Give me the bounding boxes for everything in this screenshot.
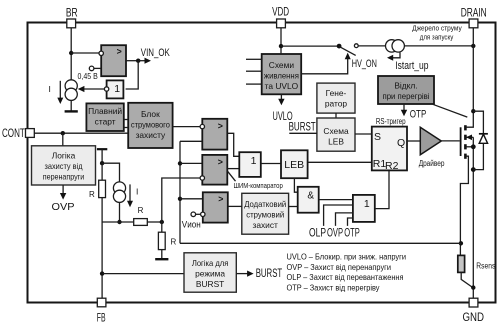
wire LEB bottom to AND gate	[294, 178, 297, 192]
svg-text:LEB: LEB	[284, 159, 304, 171]
wire soft start to current protection block 2	[124, 127, 128, 129]
svg-text:>: >	[218, 121, 223, 131]
wire current protection block to comparator A	[173, 126, 201, 128]
MOSFET channel segment body	[464, 135, 467, 140]
block Current protection (Блок струмового захисту)	[128, 103, 172, 148]
svg-text:BURST: BURST	[289, 120, 317, 134]
svg-text:R: R	[89, 190, 95, 199]
svg-text:LEB: LEB	[328, 136, 344, 146]
wire OTP input	[348, 218, 353, 226]
reference input terminal 0,45 V	[89, 66, 94, 71]
switch contact	[354, 44, 358, 48]
wire CONT	[34, 132, 128, 134]
capacitor tap below soft start	[97, 148, 107, 150]
wire comparator C output	[228, 205, 242, 207]
block Генератор	[317, 83, 355, 113]
MOSFET stub 3	[465, 146, 473, 148]
svg-text:перенапруги: перенапруги	[43, 171, 85, 181]
wire to ground	[161, 250, 163, 259]
pin BR	[67, 19, 76, 28]
svg-text:І: І	[49, 84, 51, 94]
svg-text:Блок: Блок	[141, 109, 160, 119]
input stub 3	[246, 83, 262, 85]
wire inverter to current source with arrow	[83, 88, 104, 90]
wire node B up to PWM comparator input	[162, 178, 200, 222]
wire node to comparator U1 input	[71, 52, 99, 54]
wire resistor to node B	[147, 221, 162, 223]
wire horizontal divider	[102, 221, 134, 223]
wire node down to OVP logic	[62, 133, 64, 146]
arrow Istart_up direction	[391, 53, 401, 58]
wire VDD node to switch	[281, 45, 339, 47]
svg-text:OTP: OTP	[344, 227, 360, 239]
wire Q to driver	[407, 140, 420, 142]
svg-text:S: S	[374, 131, 381, 143]
wire switch to Istart_up	[358, 45, 385, 47]
node body-source tie	[471, 144, 476, 149]
wire Rsens to GND node	[461, 272, 473, 287]
driver triangle (Драйвер)	[420, 127, 441, 154]
wire generator to LEB scheme	[335, 113, 337, 118]
svg-text:VIN_OK: VIN_OK	[141, 47, 170, 59]
svg-text:OTP: OTP	[410, 108, 427, 120]
resistor Rsens	[458, 255, 465, 272]
node bus to comparator B	[178, 161, 182, 165]
MOSFET source stub down to sense	[460, 156, 468, 255]
wire FB node to burst logic	[102, 273, 184, 275]
wire bus to comparator A lower input	[180, 140, 202, 142]
wire OVP input	[336, 213, 353, 226]
node switch pivot	[337, 44, 342, 49]
input stub 2	[246, 70, 262, 72]
input stub 1	[246, 58, 262, 60]
terminal Vion	[191, 212, 196, 217]
svg-text:Схема: Схема	[323, 126, 349, 136]
wire BR down to current source	[70, 28, 72, 80]
wire resistor down to FB	[101, 198, 103, 299]
svg-text:DRAIN: DRAIN	[461, 5, 487, 19]
svg-text:при перегріві: при перегріві	[383, 91, 430, 101]
svg-text:Відкл.: Відкл.	[394, 80, 417, 90]
current source I2	[113, 182, 125, 194]
svg-text:захист: захист	[253, 220, 279, 230]
wire OR gate output to RS trigger R2	[375, 170, 389, 208]
svg-text:0,45 В: 0,45 В	[78, 71, 99, 81]
arrow OTP	[403, 104, 405, 112]
svg-text:Rsens: Rsens	[476, 261, 495, 270]
svg-text:Логіка для: Логіка для	[192, 258, 229, 268]
svg-text:OVP – Захист від перенапруги: OVP – Захист від перенапруги	[287, 263, 392, 272]
wire U1 output	[126, 60, 139, 62]
arrow OVP	[62, 185, 64, 195]
svg-text:BURST: BURST	[256, 268, 283, 280]
svg-text:Q: Q	[397, 137, 405, 149]
svg-text:BURST: BURST	[196, 279, 224, 289]
AND gate &	[298, 187, 319, 213]
drain rail from DRAIN pin to MOSFET	[465, 28, 473, 127]
wire soft start to current protection block	[124, 119, 128, 121]
wire bus to comparator C upper input	[180, 198, 203, 200]
svg-text:Логіка: Логіка	[52, 151, 76, 161]
node diode bottom	[471, 167, 476, 172]
block LEB	[281, 150, 308, 178]
body diode	[473, 111, 483, 134]
resistor R (horizontal)	[134, 219, 148, 226]
wire node A to current source I2	[102, 163, 119, 182]
svg-text:1: 1	[364, 198, 370, 210]
wire gate 1 to LEB	[261, 163, 281, 165]
wire body/source down rail	[472, 137, 474, 298]
svg-text:OLP: OLP	[309, 227, 326, 239]
arrow current direction	[59, 81, 61, 100]
inverter 1 (top)	[107, 80, 124, 98]
svg-text:CONT: CONT	[2, 126, 25, 140]
comparator B (PWM)	[202, 155, 227, 185]
wire HV_ON control	[301, 57, 348, 74]
block OVP logic (Логіка захисту від перенапруги)	[32, 146, 96, 185]
svg-text:>: >	[117, 46, 122, 56]
node B	[160, 220, 164, 224]
current source Istart_up	[386, 40, 398, 52]
resistor R (lower, to ground)	[161, 222, 163, 232]
pin DRAIN	[469, 19, 478, 28]
svg-text:струмовий: струмовий	[246, 209, 284, 219]
MOSFET channel segment 3	[464, 144, 467, 149]
svg-text:1: 1	[251, 155, 257, 167]
svg-text:та UVLO: та UVLO	[265, 81, 299, 91]
svg-text:ШИМ-компаратор: ШИМ-компаратор	[234, 181, 283, 190]
pin VDD	[277, 19, 286, 28]
wire current sense to comparator bus	[180, 242, 461, 244]
svg-text:>: >	[218, 194, 223, 204]
RS trigger (RS-тригер)	[372, 127, 407, 171]
svg-text:старт: старт	[95, 116, 116, 126]
pin FB	[97, 298, 106, 307]
wire LEB scheme to S input	[355, 133, 372, 135]
block supply & UVLO (Схеми живлення та UVLO)	[262, 54, 302, 94]
MOSFET channel segment source	[464, 154, 467, 159]
svg-text:Схеми: Схеми	[269, 60, 295, 70]
resistor R (upper divider)	[101, 163, 103, 180]
gate 1 (middle)	[239, 152, 260, 177]
arrow VIN_OK	[138, 60, 146, 62]
svg-text:R: R	[138, 206, 144, 215]
node bus to comparator C	[178, 197, 182, 201]
wire VDD down	[280, 28, 282, 54]
svg-text:Гене-: Гене-	[326, 88, 347, 98]
comparator C (additional current protection)	[203, 192, 228, 222]
svg-text:режима: режима	[195, 268, 225, 278]
svg-text:BR: BR	[66, 6, 78, 20]
svg-text:І: І	[136, 186, 138, 196]
node sense	[459, 241, 463, 245]
wire bus to comparator B upper input	[180, 162, 202, 164]
wire to ground	[70, 100, 72, 111]
wire driver to gate	[441, 140, 460, 142]
node on BR wire	[69, 51, 73, 55]
node VDD	[279, 44, 283, 48]
svg-text:R2: R2	[385, 160, 399, 172]
svg-text:струмового: струмового	[131, 120, 170, 130]
svg-text:живлення: живлення	[264, 70, 299, 80]
leader line thermal block to MOSFET	[433, 104, 468, 117]
svg-text:Vион: Vион	[182, 219, 201, 229]
wire additional protection to AND	[289, 206, 298, 208]
comparator U1 (brown-out)	[101, 45, 126, 76]
switch HV_ON blade	[339, 46, 356, 55]
MOSFET channel segment drain	[464, 125, 467, 130]
svg-text:OLP – Захист від перевантаженн: OLP – Захист від перевантаження	[287, 273, 404, 282]
ground	[155, 258, 168, 260]
svg-text:FB: FB	[97, 311, 106, 325]
arrow UVLO down	[280, 94, 282, 101]
node drain rail top	[471, 44, 475, 48]
MOSFET body stub with arrow	[465, 136, 473, 138]
svg-text:ратор: ратор	[325, 98, 348, 108]
node VIN_OK	[136, 59, 140, 63]
svg-text:&: &	[307, 190, 314, 201]
svg-text:захисту: захисту	[136, 130, 166, 140]
svg-text:захисту від: захисту від	[45, 161, 83, 171]
ground	[65, 110, 78, 112]
comparator A (overcurrent)	[202, 119, 227, 150]
wire Istart_up to drain rail	[404, 45, 473, 47]
node CONT	[61, 131, 65, 135]
svg-text:HV_ON: HV_ON	[352, 58, 377, 70]
svg-text:Плавний: Плавний	[88, 106, 122, 116]
wire comparator B output to gate 1	[227, 168, 239, 170]
wire comparator A output to gate 1	[227, 133, 239, 156]
wire AND to OR gate	[319, 199, 353, 201]
wire OLP input	[324, 205, 353, 226]
svg-text:для запуску: для запуску	[420, 32, 454, 41]
node A	[100, 161, 104, 165]
wire I2 to bottom rail	[119, 202, 121, 222]
sense bus vertical	[179, 141, 181, 243]
svg-text:Додатковий: Додатковий	[244, 199, 286, 209]
node I2 bottom	[117, 220, 121, 224]
arrow burst output	[236, 273, 249, 275]
node GND	[471, 285, 475, 289]
OR gate 1 (right)	[353, 195, 375, 222]
pin GND	[469, 298, 478, 307]
block additional current protection (Додатковий струмовий захист)	[242, 193, 289, 234]
svg-text:Istart_up: Istart_up	[395, 60, 428, 72]
current source I (BR)	[65, 80, 77, 92]
node FB to burst logic	[100, 271, 104, 275]
svg-text:UVLO – Блокир. при зниж. напру: UVLO – Блокир. при зниж. напруги	[287, 253, 407, 262]
svg-text:OTP – Захист від перегріву: OTP – Захист від перегріву	[287, 284, 380, 293]
block burst logic (Логіка для режима BURST)	[184, 253, 236, 292]
node diode top	[471, 109, 475, 113]
wire BURST to LEB scheme	[289, 132, 317, 134]
svg-text:1: 1	[114, 83, 120, 95]
svg-text:OVP: OVP	[327, 227, 343, 239]
label PWM comparator leader	[228, 171, 236, 181]
svg-text:>: >	[218, 157, 223, 167]
pin CONT	[26, 129, 35, 138]
svg-text:RS-тригер: RS-тригер	[376, 117, 406, 126]
wire LEB to RS trigger R1	[308, 161, 372, 163]
arrow current direction I2	[129, 184, 131, 203]
svg-text:GND: GND	[463, 310, 485, 324]
svg-text:OVP: OVP	[52, 201, 75, 213]
block Soft start (Плавний старт)	[86, 103, 123, 131]
svg-text:VDD: VDD	[272, 5, 289, 19]
svg-text:Джерело струму: Джерело струму	[412, 23, 462, 32]
block Схема LEB	[317, 118, 355, 151]
svg-text:R: R	[171, 238, 177, 247]
svg-text:Драйвер: Драйвер	[419, 159, 445, 168]
MOSFET gate bar	[460, 127, 462, 156]
block thermal shutdown (Відкл. при перегріві)	[378, 76, 434, 104]
wire VIN_OK node down to inverter output	[126, 61, 139, 89]
